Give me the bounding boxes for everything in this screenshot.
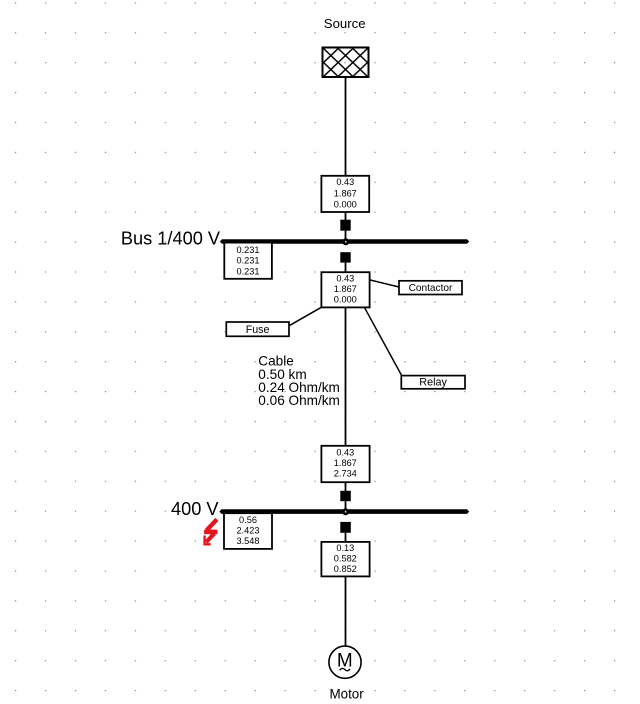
svg-text:Bus 1/400 V: Bus 1/400 V	[121, 229, 221, 249]
wire M3 to breaker CB3	[345, 482, 347, 491]
svg-text:2.734: 2.734	[334, 468, 357, 478]
wire source to meter box M1	[345, 77, 347, 176]
leader wire M2 to Contactor label	[370, 280, 399, 287]
svg-text:2.423: 2.423	[237, 526, 260, 536]
svg-text:0.000: 0.000	[334, 199, 357, 209]
breaker CB2 (closed, filled square)	[340, 252, 350, 262]
bus Bus 1/400 V (busbar)	[220, 239, 469, 244]
wire M1 to breaker CB1	[345, 212, 347, 221]
svg-text:0.000: 0.000	[334, 295, 357, 305]
meter box M3	[321, 446, 369, 482]
label box Contactor	[399, 281, 462, 295]
svg-text:3.548: 3.548	[237, 536, 260, 546]
meter box B2 (bus voltages)	[224, 513, 272, 549]
svg-text:Source: Source	[324, 16, 366, 31]
bus 400 V (busbar)	[219, 509, 469, 514]
meter box M4	[321, 542, 369, 577]
svg-text:1.867: 1.867	[334, 284, 357, 294]
svg-text:0.852: 0.852	[334, 564, 357, 574]
wire CB2 to meter box M2	[345, 263, 347, 273]
breaker CB3 (closed, filled square)	[340, 491, 351, 501]
svg-text:Fuse: Fuse	[246, 324, 270, 336]
meter box B1 (bus voltages)	[224, 243, 272, 279]
node junction on Bus 1	[342, 238, 349, 245]
wire CB4 to meter box M4	[345, 533, 347, 542]
svg-text:Motor: Motor	[329, 686, 364, 701]
wire CB1 to Bus 1	[345, 231, 347, 240]
leader wire M2 to Fuse label	[289, 307, 322, 326]
svg-text:0.13: 0.13	[336, 543, 354, 553]
wire CB3 to bus 400 V	[345, 501, 347, 510]
svg-text:400 V: 400 V	[171, 499, 219, 519]
node junction on 400 V bus	[342, 508, 349, 515]
breaker CB1 (closed, filled square)	[340, 220, 350, 231]
svg-text:1.867: 1.867	[334, 189, 357, 199]
utility source SRC (crosshatched rectangle)	[323, 48, 369, 78]
svg-text:0.43: 0.43	[336, 177, 354, 187]
svg-text:0.43: 0.43	[336, 447, 354, 457]
cable Cable data text	[258, 353, 340, 408]
wire M4 to motor	[345, 576, 347, 646]
wire cable run M2 to M3	[345, 307, 347, 446]
meter box M2	[321, 272, 369, 307]
svg-text:M: M	[337, 650, 353, 671]
svg-text:Contactor: Contactor	[409, 283, 453, 294]
svg-text:0.43: 0.43	[336, 274, 354, 284]
svg-text:1.867: 1.867	[334, 458, 357, 468]
label box Fuse	[226, 322, 289, 336]
motor Motor (circle with M~)	[329, 646, 361, 678]
meter box M1	[321, 176, 369, 212]
svg-text:0.06 Ohm/km: 0.06 Ohm/km	[258, 393, 340, 408]
label box Relay	[401, 376, 465, 389]
svg-text:0.231: 0.231	[237, 266, 260, 276]
svg-text:0.56: 0.56	[239, 515, 257, 525]
svg-text:0.582: 0.582	[334, 554, 357, 564]
fault marker (red lightning arrow)	[204, 519, 217, 544]
leader wire M2 to Relay label	[364, 307, 402, 376]
svg-text:Relay: Relay	[419, 377, 447, 389]
svg-text:0.231: 0.231	[237, 255, 260, 265]
svg-text:0.231: 0.231	[237, 245, 260, 255]
breaker CB4 (closed, filled square)	[340, 522, 351, 533]
